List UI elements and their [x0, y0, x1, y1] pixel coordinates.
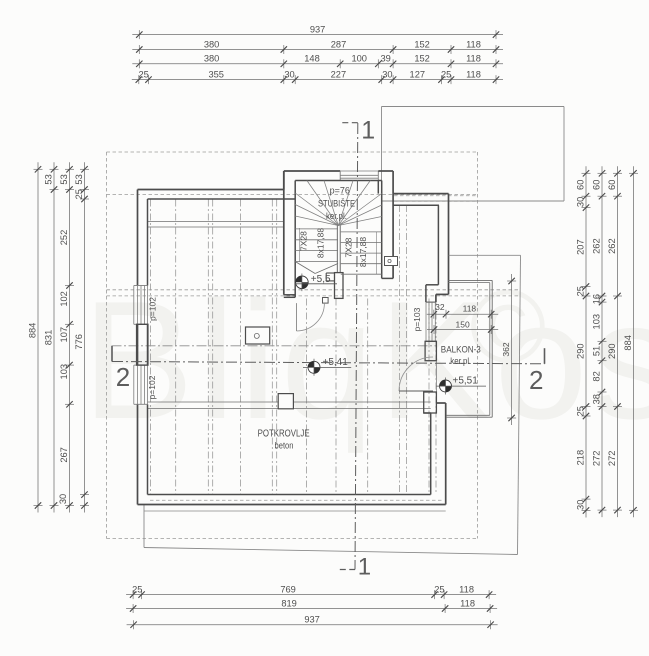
- svg-text:107: 107: [59, 327, 69, 343]
- svg-text:30: 30: [382, 69, 392, 79]
- svg-text:380: 380: [204, 54, 220, 64]
- svg-text:30: 30: [58, 494, 68, 504]
- svg-text:30: 30: [576, 197, 586, 207]
- svg-text:60: 60: [592, 180, 602, 190]
- svg-text:102: 102: [59, 291, 69, 307]
- svg-text:7X28: 7X28: [299, 231, 309, 251]
- svg-text:2: 2: [116, 362, 130, 392]
- svg-text:p=76: p=76: [330, 186, 350, 196]
- svg-text:262: 262: [607, 238, 617, 254]
- svg-text:ker.pl.: ker.pl.: [326, 211, 347, 221]
- svg-text:53: 53: [59, 174, 69, 184]
- svg-text:831: 831: [44, 330, 54, 346]
- svg-text:937: 937: [310, 24, 326, 34]
- svg-text:118: 118: [459, 584, 474, 594]
- svg-text:25: 25: [139, 69, 149, 79]
- svg-text:262: 262: [592, 238, 602, 254]
- svg-text:148: 148: [304, 54, 320, 64]
- svg-text:118: 118: [466, 39, 481, 49]
- svg-text:POTKROVLJE: POTKROVLJE: [258, 429, 310, 440]
- svg-text:937: 937: [304, 615, 320, 625]
- svg-text:776: 776: [74, 334, 84, 350]
- svg-text:103: 103: [592, 314, 602, 330]
- svg-text:ker.pl.: ker.pl.: [450, 356, 471, 366]
- svg-text:2: 2: [529, 365, 543, 395]
- svg-text:355: 355: [208, 69, 224, 79]
- svg-text:+5,41: +5,41: [323, 357, 349, 368]
- svg-text:60: 60: [607, 180, 617, 190]
- svg-text:118: 118: [463, 304, 477, 314]
- svg-text:1: 1: [361, 117, 375, 145]
- svg-text:53: 53: [44, 174, 54, 184]
- svg-text:39: 39: [381, 54, 391, 64]
- svg-text:8x17,88: 8x17,88: [316, 228, 326, 259]
- svg-text:BliqKos: BliqKos: [82, 266, 649, 454]
- svg-text:272: 272: [592, 451, 602, 467]
- svg-text:287: 287: [331, 39, 347, 49]
- svg-text:53: 53: [74, 174, 84, 184]
- svg-text:272: 272: [607, 451, 617, 467]
- svg-text:25: 25: [434, 584, 444, 594]
- svg-text:25: 25: [576, 406, 586, 416]
- svg-text:25: 25: [441, 69, 451, 79]
- svg-text:82: 82: [592, 371, 602, 381]
- svg-text:51: 51: [592, 346, 602, 356]
- svg-text:STUBIŠTE: STUBIŠTE: [318, 199, 355, 210]
- svg-text:290: 290: [576, 343, 586, 359]
- svg-text:152: 152: [414, 54, 430, 64]
- svg-text:p=102: p=102: [148, 297, 158, 321]
- svg-text:103: 103: [59, 364, 69, 380]
- svg-text:p=102: p=102: [147, 375, 157, 399]
- svg-text:8x17,88: 8x17,88: [358, 237, 368, 268]
- svg-text:152: 152: [414, 39, 430, 49]
- svg-text:38: 38: [592, 394, 602, 404]
- svg-text:16: 16: [592, 294, 602, 304]
- svg-text:290: 290: [607, 343, 617, 359]
- svg-text:127: 127: [410, 69, 426, 79]
- svg-text:32: 32: [435, 302, 445, 312]
- svg-text:252: 252: [59, 230, 69, 246]
- svg-text:118: 118: [460, 598, 475, 608]
- svg-text:30: 30: [576, 500, 586, 510]
- svg-text:884: 884: [28, 323, 38, 339]
- svg-text:884: 884: [623, 335, 633, 351]
- svg-text:+5,51: +5,51: [453, 376, 479, 387]
- svg-text:30: 30: [284, 69, 294, 79]
- svg-text:769: 769: [280, 584, 296, 594]
- svg-text:118: 118: [466, 69, 481, 79]
- svg-text:25: 25: [132, 584, 142, 594]
- svg-text:beton: beton: [275, 441, 294, 451]
- svg-text:227: 227: [331, 69, 347, 79]
- svg-text:207: 207: [576, 239, 586, 255]
- svg-text:60: 60: [576, 180, 586, 190]
- svg-text:BALKON-3: BALKON-3: [441, 345, 481, 356]
- svg-text:1: 1: [358, 554, 371, 581]
- svg-text:819: 819: [281, 598, 297, 608]
- svg-text:+5,5: +5,5: [311, 274, 331, 285]
- svg-text:25: 25: [576, 286, 586, 296]
- svg-text:362: 362: [501, 342, 511, 356]
- svg-text:7X28: 7X28: [344, 237, 354, 257]
- svg-text:218: 218: [576, 450, 586, 466]
- svg-text:267: 267: [59, 447, 69, 463]
- svg-text:150: 150: [456, 319, 470, 329]
- svg-text:118: 118: [466, 54, 481, 64]
- svg-text:100: 100: [351, 54, 367, 64]
- svg-text:p=103: p=103: [412, 307, 422, 331]
- svg-text:380: 380: [204, 39, 220, 49]
- svg-text:25: 25: [74, 189, 84, 199]
